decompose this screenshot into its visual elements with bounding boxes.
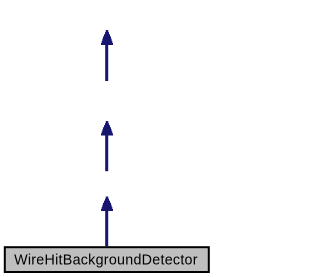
inheritance arrow A3 (bottom)	[101, 197, 113, 247]
svg-text:WireHitBackgroundDetector: WireHitBackgroundDetector	[14, 253, 198, 269]
inheritance arrow A1 (top)	[101, 30, 113, 81]
class box WireHitBackgroundDetector	[5, 247, 209, 272]
inheritance arrow A2 (middle)	[101, 121, 113, 171]
inheritance diagram	[0, 0, 213, 277]
